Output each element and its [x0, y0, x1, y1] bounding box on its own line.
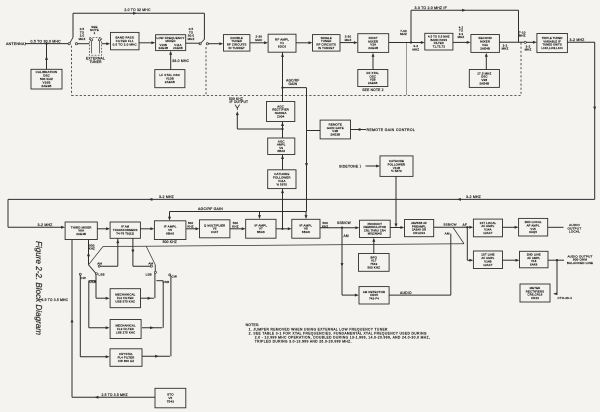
svg-text:SSB/CW: SSB/CW — [337, 221, 351, 225]
svg-text:2AE3B: 2AE3B — [330, 133, 340, 137]
svg-text:CR23: CR23 — [531, 296, 539, 300]
svg-text:MHZ: MHZ — [458, 35, 465, 39]
svg-text:REMOTE GAIN CONTROL: REMOTE GAIN CONTROL — [367, 128, 416, 132]
svg-text:USB: USB — [89, 280, 96, 284]
svg-text:TUNER: TUNER — [89, 60, 102, 64]
svg-text:MHZ: MHZ — [412, 48, 419, 52]
svg-text:SEE NOTE 2: SEE NOTE 2 — [362, 88, 383, 92]
svg-text:CW: CW — [172, 274, 177, 278]
svg-text:MHZ: MHZ — [345, 38, 352, 42]
svg-text:1: 1 — [94, 31, 96, 35]
svg-text:IF OUTPUT: IF OUTPUT — [230, 100, 249, 104]
svg-text:12AX7: 12AX7 — [483, 231, 493, 235]
svg-text:3-2 MHZ: 3-2 MHZ — [159, 195, 175, 199]
svg-text:SSB/CW: SSB/CW — [443, 222, 456, 226]
svg-text:2AE4B: 2AE4B — [158, 46, 168, 50]
svg-text:KHZ: KHZ — [187, 224, 193, 228]
svg-text:MHZ: MHZ — [525, 48, 532, 52]
svg-text:BALANCED LINE: BALANCED LINE — [567, 261, 593, 265]
svg-text:CTO-36-4: CTO-36-4 — [558, 296, 573, 300]
svg-text:2AE4B: 2AE4B — [173, 46, 183, 50]
svg-text:6AQ5: 6AQ5 — [529, 230, 537, 234]
svg-text:6BA6: 6BA6 — [257, 230, 265, 234]
svg-text:MHC: MHC — [255, 38, 262, 42]
svg-text:AM: AM — [148, 261, 153, 265]
svg-text:500 KHZ: 500 KHZ — [367, 265, 380, 269]
svg-text:12AX7: 12AX7 — [483, 263, 493, 267]
svg-text:CR12/13: CR12/13 — [413, 231, 425, 235]
svg-text:MHZ: MHZ — [79, 37, 86, 41]
svg-text:AF: AF — [463, 223, 467, 227]
svg-text:NOTES:: NOTES: — [246, 323, 260, 327]
svg-text:T4-T8 T9(12): T4-T8 T9(12) — [116, 231, 134, 235]
svg-text:3-2 MHZ: 3-2 MHZ — [570, 38, 586, 42]
svg-text:2AE4B: 2AE4B — [165, 80, 175, 84]
svg-text:2AE4B: 2AE4B — [479, 82, 489, 86]
svg-text:38.0 MHC: 38.0 MHC — [172, 59, 189, 63]
svg-text:KHZ: KHZ — [232, 224, 238, 228]
svg-text:AM: AM — [445, 231, 450, 235]
svg-text:LSB: LSB — [146, 273, 152, 277]
svg-text:2AE4B: 2AE4B — [368, 81, 378, 85]
svg-text:MHZ: MHZ — [502, 47, 509, 51]
svg-text:IN TURRET: IN TURRET — [228, 46, 245, 50]
svg-text:AGC/RF GAIN: AGC/RF GAIN — [198, 207, 223, 211]
svg-text:½ 5670: ½ 5670 — [276, 182, 287, 186]
svg-text:L102,L103,L104: L102,L103,L104 — [542, 46, 564, 50]
svg-text:2AE4B: 2AE4B — [368, 46, 378, 50]
svg-text:743-F4: 743-F4 — [369, 297, 379, 301]
svg-text:CW: CW — [81, 276, 86, 280]
svg-text:2AE4B: 2AE4B — [480, 47, 490, 51]
svg-text:3-2 MHZ: 3-2 MHZ — [38, 223, 54, 227]
svg-text:SIDETONE 〉: SIDETONE 〉 — [339, 163, 363, 168]
svg-text:½ 5670: ½ 5670 — [391, 169, 402, 173]
svg-text:AM: AM — [344, 234, 349, 238]
svg-text:500 KHZ: 500 KHZ — [163, 240, 177, 244]
svg-text:KHZ: KHZ — [89, 247, 95, 251]
svg-text:IN TURRET: IN TURRET — [318, 46, 335, 50]
svg-text:LSB 275 KHC: LSB 275 KHC — [116, 330, 135, 334]
svg-text:2AE3B: 2AE3B — [41, 84, 51, 88]
svg-text:CW 800 HZ: CW 800 HZ — [118, 359, 134, 363]
svg-text:6BA6: 6BA6 — [166, 232, 174, 236]
svg-text:LSB: LSB — [98, 273, 104, 277]
svg-text:AUDIO: AUDIO — [400, 291, 412, 295]
svg-text:6BA6: 6BA6 — [302, 230, 310, 234]
svg-text:USB 575 KHC: USB 575 KHC — [115, 300, 135, 304]
svg-text:7543: 7543 — [167, 400, 175, 404]
svg-text:MHZ: MHZ — [400, 32, 407, 36]
svg-text:6BA6: 6BA6 — [277, 149, 285, 153]
svg-text:MHZ: MHZ — [519, 34, 526, 38]
svg-text:2.0 TO 32 MHC: 2.0 TO 32 MHC — [124, 8, 151, 12]
svg-text:2.5 TO 3.5 MHC: 2.5 TO 3.5 MHC — [42, 298, 69, 302]
svg-text:3.0 TO 2.0 MHZ IF: 3.0 TO 2.0 MHZ IF — [415, 6, 447, 10]
svg-text:MHZ: MHZ — [188, 37, 195, 41]
svg-text:Figure 2-2. Block Diagram: Figure 2-2. Block Diagram — [34, 241, 43, 335]
svg-text:6DC6: 6DC6 — [278, 45, 287, 49]
svg-text:3-2 MHZ: 3-2 MHZ — [466, 195, 482, 199]
svg-text:C904: C904 — [277, 115, 285, 119]
svg-text:C447: C447 — [211, 230, 219, 234]
svg-text:6AK6: 6AK6 — [530, 263, 538, 267]
svg-text:GAIN: GAIN — [289, 82, 298, 86]
svg-text:LOCAL: LOCAL — [569, 230, 580, 234]
svg-text:2.5 TO 3.5 MHZ: 2.5 TO 3.5 MHZ — [102, 393, 128, 397]
svg-text:2AE4B: 2AE4B — [76, 232, 86, 236]
svg-text:0.5 TO 2.0 MHC: 0.5 TO 2.0 MHC — [113, 43, 138, 47]
svg-text:T1,T2,T3: T1,T2,T3 — [433, 44, 446, 48]
svg-text:AM: AM — [97, 261, 102, 265]
svg-text:MX(2N)4G: MX(2N)4G — [368, 232, 382, 236]
svg-text:TRIPLED DURING 3.0-13.999 AND: TRIPLED DURING 3.0-13.999 AND 26.0-29.99… — [255, 339, 352, 343]
